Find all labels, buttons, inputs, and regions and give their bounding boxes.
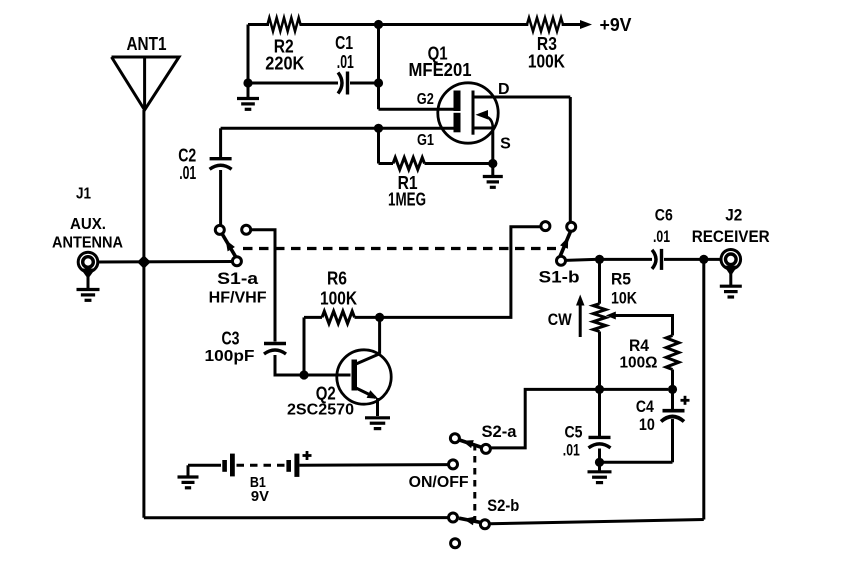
svg-text:10: 10 — [639, 415, 655, 434]
svg-text:R6: R6 — [327, 269, 347, 289]
svg-text:Q2: Q2 — [316, 383, 336, 403]
svg-text:ON/OFF: ON/OFF — [409, 474, 469, 491]
svg-text:2SC2570: 2SC2570 — [287, 401, 354, 418]
svg-text:220K: 220K — [265, 53, 304, 73]
svg-text:100K: 100K — [528, 52, 565, 72]
svg-text:+9V: +9V — [600, 15, 632, 35]
svg-text:.01: .01 — [653, 227, 670, 246]
svg-text:100Ω: 100Ω — [620, 354, 658, 371]
svg-text:10K: 10K — [611, 288, 638, 307]
svg-text:J1: J1 — [76, 186, 91, 203]
svg-text:HF/VHF: HF/VHF — [209, 289, 267, 306]
svg-text:ANTENNA: ANTENNA — [52, 234, 123, 251]
svg-text:C3: C3 — [222, 328, 240, 348]
svg-text:1MEG: 1MEG — [388, 190, 426, 210]
svg-text:100K: 100K — [320, 288, 357, 308]
svg-text:R5: R5 — [611, 269, 631, 288]
svg-text:R4: R4 — [629, 336, 649, 355]
svg-text:.01: .01 — [179, 163, 196, 183]
svg-text:9V: 9V — [251, 488, 269, 505]
svg-text:G1: G1 — [417, 132, 434, 149]
svg-text:S1-a: S1-a — [217, 269, 259, 288]
svg-text:C1: C1 — [335, 33, 353, 53]
svg-text:G2: G2 — [417, 91, 434, 108]
svg-text:S: S — [500, 135, 511, 152]
svg-text:ANT1: ANT1 — [127, 34, 167, 54]
svg-text:MFE201: MFE201 — [409, 60, 472, 80]
svg-text:C4: C4 — [636, 397, 654, 416]
svg-text:S2-b: S2-b — [487, 496, 519, 515]
svg-text:100pF: 100pF — [205, 348, 255, 365]
svg-text:S2-a: S2-a — [482, 422, 518, 441]
svg-text:CW: CW — [548, 310, 573, 329]
svg-text:.01: .01 — [337, 52, 354, 72]
svg-text:AUX.: AUX. — [70, 216, 106, 233]
svg-text:C6: C6 — [655, 206, 673, 225]
svg-text:RECEIVER: RECEIVER — [692, 227, 770, 246]
svg-text:C5: C5 — [565, 423, 583, 442]
svg-text:.01: .01 — [563, 441, 580, 460]
svg-text:J2: J2 — [725, 206, 742, 225]
svg-text:D: D — [498, 81, 510, 98]
svg-text:S1-b: S1-b — [539, 267, 580, 286]
